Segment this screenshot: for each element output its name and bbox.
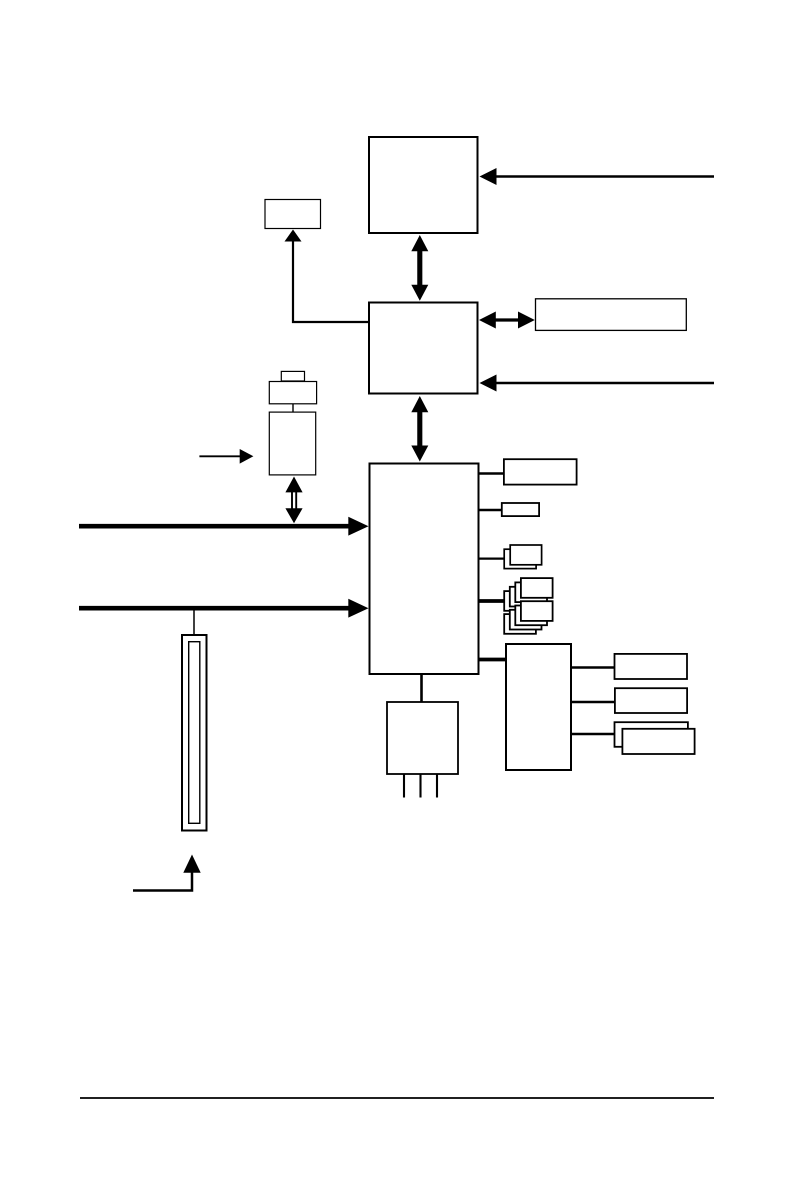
wire to IDE stacked pair <box>479 557 505 559</box>
block audio codec <box>506 644 571 770</box>
wire to BIOS box <box>479 509 502 512</box>
block super I/O <box>387 702 458 774</box>
wire audio to mic stacked pair <box>572 733 622 736</box>
double-line bidirectional arrow AGP - bus line 1 <box>285 477 302 524</box>
wire to LAN box <box>479 472 504 475</box>
wire (thick) to USB stack <box>479 599 505 603</box>
block USB bottom group layer 2 <box>515 606 547 626</box>
wire (thick) to audio codec <box>479 658 507 662</box>
block IDE front <box>510 545 541 565</box>
block south bridge <box>370 464 479 675</box>
block AGP stack middle <box>269 382 316 404</box>
block line-in <box>615 688 687 713</box>
block USB top group layer 3 <box>510 587 542 607</box>
bidirectional arrow north bridge - memory <box>479 312 535 329</box>
bus line 1 arrow into south bridge <box>79 517 369 536</box>
separator line at page bottom <box>80 1097 714 1099</box>
block USB bottom group layer 3 <box>510 610 542 630</box>
block USB bottom group layer 4 <box>504 614 536 634</box>
wire super I/O leg 2 <box>419 774 421 798</box>
PCI slot outer <box>182 635 207 831</box>
block USB top group front <box>521 578 553 598</box>
block CPU <box>369 137 478 233</box>
block mic back <box>615 722 688 747</box>
bidirectional arrow CPU - north bridge <box>411 235 428 301</box>
block mic front <box>622 729 694 754</box>
arrow below PCI slot <box>133 855 201 891</box>
bidirectional arrow north bridge - south bridge <box>411 396 428 462</box>
block USB top group layer 4 <box>504 591 536 611</box>
wire audio to line-in box <box>572 701 615 704</box>
wire south bridge to super I/O <box>420 674 423 702</box>
block USB top group layer 2 <box>515 582 547 602</box>
wire from north bridge to clock generator with up arrowhead <box>285 230 370 323</box>
wire: arrow from right edge into north bridge <box>480 375 715 392</box>
block IDE back <box>504 549 536 568</box>
wire: FSB arrow from right edge into CPU <box>480 168 715 185</box>
PCI slot inner <box>189 642 200 824</box>
block clock generator (top-left small box) <box>265 200 321 229</box>
arrow pointing into AGP stack <box>199 449 253 464</box>
block LAN <box>504 459 577 484</box>
wire audio to line-out box <box>572 666 615 669</box>
block tiny top of AGP stack <box>281 371 304 381</box>
block line-out <box>615 654 688 679</box>
block memory <box>536 299 687 331</box>
block USB bottom group front <box>521 601 553 621</box>
bus line 2 (PCI bus) arrow into south bridge <box>79 599 369 618</box>
block AGP stack bottom <box>269 412 315 475</box>
wire connector AGP stack <box>292 404 294 412</box>
wire bus 2 to PCI slot <box>193 611 195 636</box>
block BIOS <box>502 503 539 516</box>
wire super I/O leg 1 <box>403 774 405 798</box>
wire super I/O leg 3 <box>436 774 438 798</box>
block north bridge <box>369 303 478 394</box>
